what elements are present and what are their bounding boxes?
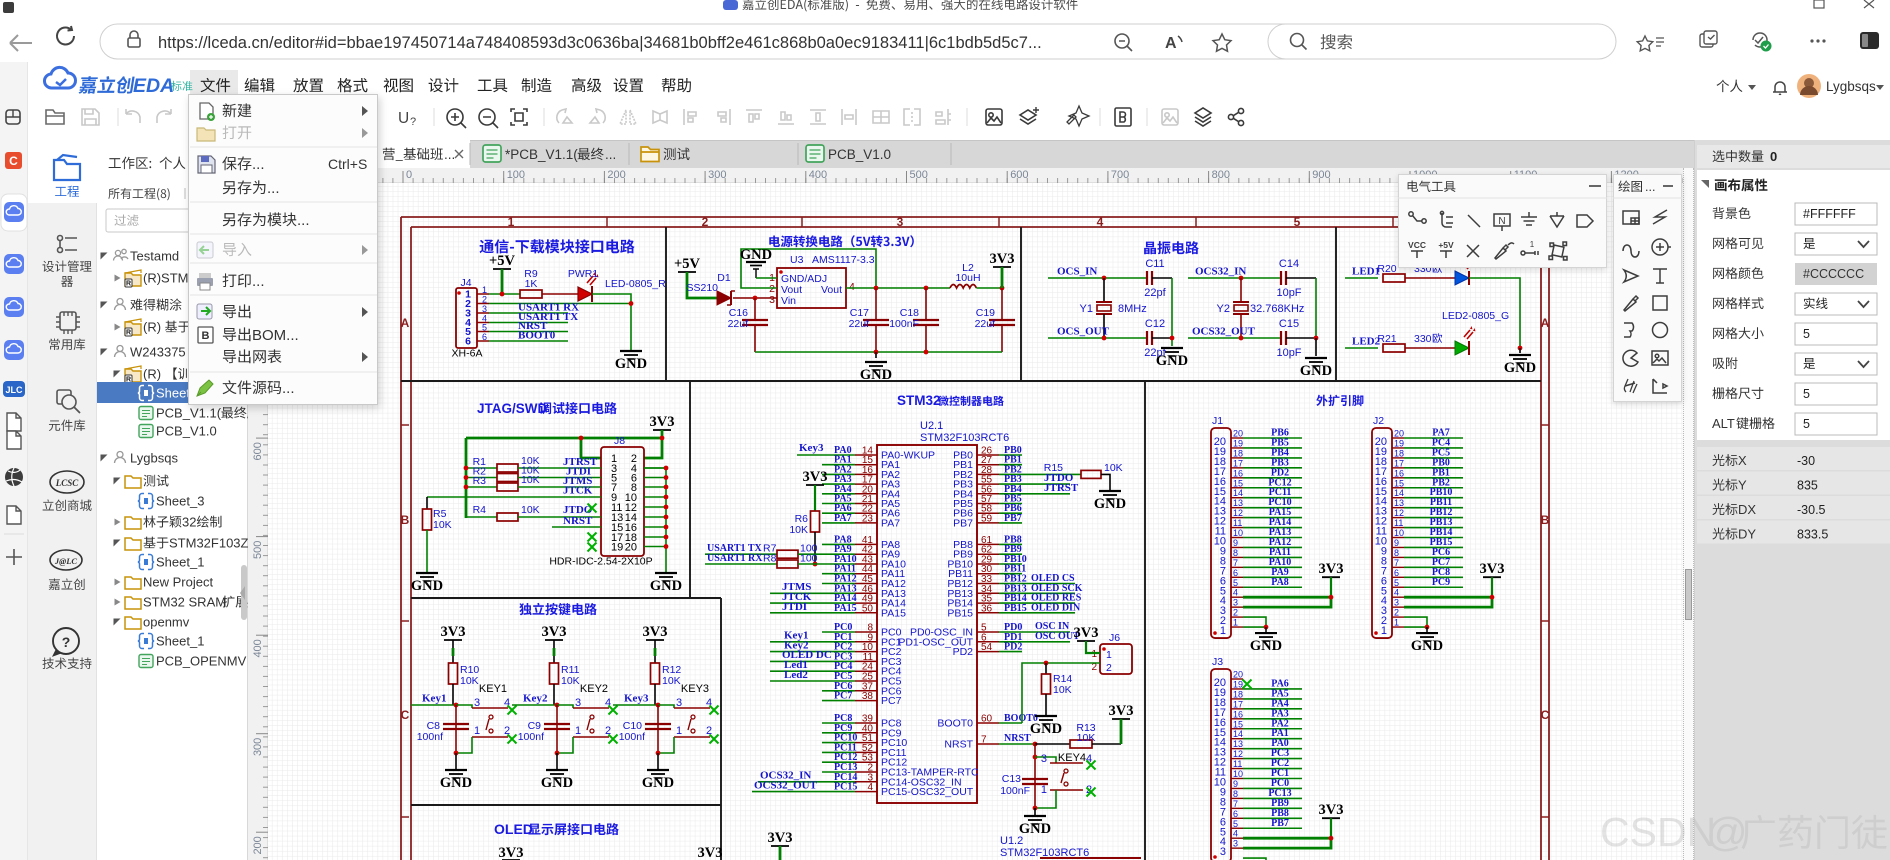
net label PA14 (J1 pin11)	[1243, 527, 1302, 529]
U2 pin 57 PB5	[977, 503, 999, 505]
svg-text:10K: 10K	[1053, 684, 1072, 696]
svg-text:R20: R20	[1377, 263, 1396, 275]
svg-text:7: 7	[1394, 558, 1399, 568]
svg-text:PD2: PD2	[953, 646, 974, 658]
svg-text:12: 12	[1233, 749, 1243, 759]
svg-text:GND: GND	[740, 247, 772, 263]
svg-text:PC9: PC9	[1432, 577, 1450, 588]
svg-text:900: 900	[1312, 169, 1330, 181]
wire NRST to KEY4/C13	[1034, 744, 1036, 808]
svg-text:Vout: Vout	[821, 284, 842, 296]
svg-text:1: 1	[1381, 625, 1387, 637]
resistor R3 10K	[466, 486, 497, 488]
U2 pin 21 PA5	[855, 503, 877, 505]
svg-text:6: 6	[1394, 568, 1399, 578]
svg-text:7: 7	[981, 735, 987, 746]
svg-text:GND: GND	[1250, 638, 1282, 654]
junction 3V3 out	[1000, 286, 1005, 291]
junction jtag 2	[660, 436, 665, 441]
net label PC3 (J3 pin12)	[1243, 758, 1302, 760]
U2 pin 45 PA12	[855, 583, 877, 585]
U2 pin 29 PB10	[977, 563, 999, 565]
svg-text:19: 19	[1233, 438, 1243, 448]
net label OSC OUT	[1022, 641, 1070, 643]
net label Key2 (PC2)	[770, 651, 822, 653]
resistor R5 10K	[426, 497, 428, 509]
svg-text:22pf: 22pf	[1144, 287, 1166, 299]
svg-text:JTCK: JTCK	[563, 485, 593, 497]
net label JTRST (PB4)	[1022, 493, 1070, 495]
title crystal oscillator circuit	[1144, 241, 1199, 254]
resistor R1 10K	[466, 467, 497, 469]
svg-text:8MHz: 8MHz	[1118, 303, 1147, 315]
net label PD2 (J1 pin16)	[1243, 477, 1302, 479]
net label PB1 (J2 pin16)	[1404, 477, 1463, 479]
svg-text:AMS1117-3.3: AMS1117-3.3	[812, 254, 875, 266]
title independent key circuit	[519, 603, 597, 615]
U2 pin 42 PA9	[855, 553, 877, 555]
svg-text:J1: J1	[1212, 415, 1223, 427]
svg-text:LED2-0805_G: LED2-0805_G	[1442, 310, 1509, 322]
svg-text:1: 1	[575, 725, 581, 737]
junction R2	[464, 475, 469, 480]
net label PB8 (J3 pin6)	[1243, 817, 1302, 819]
svg-text:NRST: NRST	[944, 739, 973, 751]
svg-text:400: 400	[809, 169, 827, 181]
svg-text:6: 6	[465, 336, 471, 348]
net label Key1	[411, 704, 456, 706]
svg-text:OCS32_IN: OCS32_IN	[1195, 266, 1246, 278]
junction C9 bottom	[555, 751, 560, 756]
svg-text:600: 600	[1010, 169, 1028, 181]
U2 pin 6 PD1-OSC_OUT	[977, 641, 999, 643]
junction 3V3 (J2)	[1490, 595, 1495, 600]
svg-text:18: 18	[1233, 448, 1243, 458]
capacitor C12 22pf	[1146, 331, 1148, 345]
svg-text:100nf: 100nf	[417, 731, 443, 743]
junction LED2 rail	[1518, 346, 1523, 351]
svg-text:400: 400	[252, 639, 264, 657]
ground GND (J1)	[1265, 627, 1267, 632]
net label PA0 (J3 pin13)	[1243, 748, 1302, 750]
svg-text:100: 100	[507, 169, 525, 181]
svg-text:3V3: 3V3	[768, 830, 793, 846]
wire +5V to diode D1	[687, 272, 717, 298]
wire D1 to U3 Vin	[733, 297, 777, 299]
net label PC8 (J2 pin6)	[1404, 576, 1463, 578]
svg-text:10K: 10K	[789, 524, 808, 536]
ground GND (32k)	[1315, 338, 1317, 356]
ground GND (J2)	[1426, 627, 1428, 632]
net label NRST (J8)	[552, 526, 601, 528]
svg-text:NRST: NRST	[563, 515, 593, 527]
net label JTDO (PB3)	[1022, 483, 1070, 485]
svg-text:4: 4	[1394, 588, 1399, 598]
wire J8 right rail	[644, 468, 666, 572]
svg-text:500: 500	[910, 169, 928, 181]
svg-text:J3: J3	[1212, 656, 1223, 668]
svg-text:GND: GND	[541, 775, 573, 791]
svg-text:J8: J8	[614, 435, 625, 447]
net label PC2 (J3 pin11)	[1243, 768, 1302, 770]
capacitor C13 100nF	[1022, 778, 1048, 780]
svg-text:C12: C12	[1145, 318, 1165, 330]
svg-text:330: 330	[1414, 333, 1432, 345]
svg-text:R8: R8	[763, 553, 777, 565]
svg-text:PWR1: PWR1	[568, 268, 598, 280]
net label PB10 (J2 pin14)	[1404, 497, 1463, 499]
wire 3V3 to R12	[654, 640, 656, 648]
svg-text:12: 12	[1233, 508, 1243, 518]
svg-text:22uf: 22uf	[849, 318, 870, 330]
svg-text:3V3: 3V3	[990, 251, 1015, 267]
resistor R14 10K	[1045, 663, 1047, 674]
title communication-download module interface circuit	[480, 239, 635, 253]
wire KEY4 to rail	[1035, 790, 1056, 808]
svg-text:PC7: PC7	[834, 691, 852, 702]
wire R20 to LED1	[1405, 277, 1455, 279]
svg-text:GND: GND	[1156, 353, 1188, 369]
svg-text:17: 17	[1394, 458, 1404, 468]
junction C17	[874, 286, 879, 291]
svg-text:4: 4	[1233, 829, 1238, 839]
svg-text:54: 54	[981, 642, 993, 653]
net label PC4 (J2 pin19)	[1404, 447, 1463, 449]
crystal Y2 32.768KHz	[1240, 278, 1242, 302]
svg-text:1: 1	[1041, 784, 1047, 796]
svg-text:9: 9	[1233, 538, 1238, 548]
wire J2 pin4 3V3	[1404, 596, 1492, 599]
resistor R15 10K (PB2)	[1022, 473, 1081, 475]
svg-text:1: 1	[508, 215, 515, 229]
resistor R12 10K	[651, 663, 660, 684]
svg-text:4: 4	[1233, 588, 1238, 598]
ground GND (8MHz)	[1161, 347, 1183, 349]
U2 pin 49 PA14	[855, 602, 877, 604]
U2 pin 24 PC4	[855, 670, 877, 672]
net label PC13 (J3 pin8)	[1243, 797, 1302, 799]
svg-text:5: 5	[1294, 215, 1301, 229]
svg-text:GND: GND	[1300, 363, 1332, 379]
svg-text:OCS32_OUT: OCS32_OUT	[754, 780, 818, 792]
U2 pin 7 NRST	[977, 743, 999, 745]
net label PB12 (J2 pin12)	[1404, 517, 1463, 519]
svg-text:3V3: 3V3	[698, 845, 723, 860]
svg-text:100nF: 100nF	[1000, 785, 1030, 797]
wire ground rail (power block)	[755, 351, 1002, 353]
svg-text:+5V: +5V	[674, 256, 701, 272]
svg-text:GND: GND	[860, 367, 892, 383]
svg-text:C13: C13	[1002, 773, 1021, 785]
net label PC6 (J2 pin8)	[1404, 556, 1463, 558]
net label LED1	[1345, 277, 1378, 279]
svg-text:15: 15	[1233, 478, 1243, 488]
net label JTCK (PA14)	[770, 602, 822, 604]
wire J2 pin3 3V3	[1404, 597, 1492, 607]
svg-text:20: 20	[1394, 429, 1404, 439]
U2 pin 35 PB14	[977, 602, 999, 604]
svg-text:8: 8	[1233, 789, 1238, 799]
svg-text:17: 17	[1233, 458, 1243, 468]
wire crystal2 right rail	[1315, 278, 1317, 338]
U2 pin 41 PA8	[855, 543, 877, 545]
svg-text:10uH: 10uH	[955, 272, 980, 284]
svg-text:U3: U3	[790, 254, 804, 266]
net label PB9 (J3 pin7)	[1243, 807, 1302, 809]
voltage regulator U3 AMS1117-3.3	[777, 268, 846, 308]
svg-text:50: 50	[862, 603, 874, 614]
svg-text:3V3: 3V3	[643, 624, 668, 640]
svg-text:19: 19	[611, 542, 623, 554]
wire J3 pin4 3V3	[1243, 837, 1331, 840]
net label Key3 (PA0)	[797, 454, 822, 456]
wire J1 pin1 GND	[1243, 626, 1266, 628]
U2 pin 40 PC9	[855, 732, 877, 734]
ground GND (KEY3)	[647, 769, 669, 771]
svg-text:J2: J2	[1373, 415, 1384, 427]
U2 pin 30 PB11	[977, 573, 999, 575]
svg-text:10K: 10K	[460, 675, 479, 687]
wire LED1 to rail	[1469, 278, 1520, 348]
junction Key2	[555, 703, 560, 708]
net label JTMS (PA13)	[770, 592, 822, 594]
junction C16	[753, 296, 758, 301]
svg-text:C14: C14	[1279, 258, 1299, 270]
wire +5V to J4 pin1	[501, 269, 504, 294]
svg-text:GND: GND	[1019, 821, 1051, 837]
net label PB2 (J2 pin15)	[1404, 487, 1463, 489]
junction R6 PA10	[813, 562, 818, 567]
U2 pin 22 PA6	[855, 512, 877, 514]
svg-text:3: 3	[1220, 846, 1226, 858]
svg-text:2: 2	[702, 215, 709, 229]
junction C8 bottom	[454, 751, 459, 756]
net label PB14 (J2 pin10)	[1404, 537, 1463, 539]
svg-text:3V3: 3V3	[542, 624, 567, 640]
crystal Y1 8MHz	[1103, 278, 1105, 302]
junction R3	[464, 485, 469, 490]
svg-text:60: 60	[981, 714, 993, 725]
svg-text:6: 6	[1233, 809, 1238, 819]
U2 pin 2 PC13-TAMPER-RTC	[855, 771, 877, 773]
resistor R11 10K	[550, 663, 559, 684]
junction 3V3 (J1)	[1329, 595, 1334, 600]
svg-text:1: 1	[1106, 649, 1112, 661]
svg-text:A: A	[1541, 316, 1550, 330]
U2 pin 33 PB12	[977, 583, 999, 585]
net label PA10 (J1 pin7)	[1243, 566, 1302, 568]
svg-text:Key3: Key3	[799, 442, 824, 454]
wire crystal1 right rail	[1171, 278, 1173, 346]
wire 3V3 bus (JTAG)	[466, 437, 662, 440]
net label PB6 (J1 pin20)	[1243, 437, 1302, 439]
junction Y2 bottom	[1239, 336, 1244, 341]
net label PC5 (J2 pin18)	[1404, 457, 1463, 459]
svg-text:3V3: 3V3	[1480, 561, 1505, 577]
svg-text:R21: R21	[1377, 333, 1396, 345]
svg-text:1: 1	[1394, 618, 1399, 628]
junction gnd rail 1	[874, 350, 879, 355]
svg-text:GND: GND	[1030, 721, 1062, 737]
svg-text:GND: GND	[642, 775, 674, 791]
svg-text:1: 1	[474, 725, 480, 737]
U2 pin 50 PA15	[855, 612, 877, 614]
net label PC9 (J2 pin5)	[1404, 586, 1463, 588]
U2 pin 17 PA3	[855, 483, 877, 485]
svg-text:JTDI: JTDI	[782, 601, 807, 613]
U2 pin 26 PB0	[977, 454, 999, 456]
svg-text:11: 11	[1233, 759, 1242, 769]
svg-text:100nf: 100nf	[518, 731, 544, 743]
svg-text:22uf: 22uf	[975, 318, 996, 330]
U2 pin 36 PB15	[977, 612, 999, 614]
LED PWR1 LED-0805_R	[578, 287, 592, 301]
svg-text:5: 5	[1233, 578, 1238, 588]
wire to GND (KEY2)	[556, 753, 558, 770]
svg-text:200: 200	[252, 836, 264, 854]
junction KEY4	[1033, 755, 1038, 760]
svg-text:9: 9	[1394, 538, 1399, 548]
svg-text:8: 8	[1233, 548, 1238, 558]
block outline communication module	[401, 380, 1541, 382]
svg-text:200: 200	[607, 169, 625, 181]
svg-text:NRST: NRST	[1004, 733, 1031, 744]
svg-text:BOOT0: BOOT0	[518, 330, 556, 342]
svg-text:GND: GND	[440, 775, 472, 791]
svg-text:32.768KHz: 32.768KHz	[1250, 303, 1304, 315]
svg-text:C: C	[1541, 708, 1550, 722]
net label PB7 (J3 pin5)	[1243, 827, 1302, 829]
svg-text:SS210: SS210	[686, 282, 718, 294]
svg-text:HDR-IDC-2.54-2X10P: HDR-IDC-2.54-2X10P	[549, 556, 652, 568]
svg-text:10K: 10K	[1077, 732, 1096, 744]
svg-text:Key3: Key3	[624, 693, 649, 705]
ground GND (C13)	[1024, 815, 1046, 817]
net label BOOT0 (J4)	[489, 340, 568, 342]
svg-text:1K: 1K	[525, 278, 538, 290]
svg-text:PB7: PB7	[953, 517, 973, 529]
net label OCS32_IN	[1188, 277, 1281, 279]
wire KEY1 to rail	[456, 737, 472, 753]
svg-text:KEY2: KEY2	[580, 683, 608, 695]
svg-text:PB7: PB7	[1271, 818, 1289, 829]
wire to GND (C13)	[1034, 808, 1036, 815]
ground GND (J8)	[655, 572, 677, 574]
capacitor C10 100nf	[657, 705, 659, 753]
net label PC11 (J1 pin14)	[1243, 497, 1302, 499]
wire R5 to GND	[426, 530, 428, 572]
svg-text:B: B	[1541, 513, 1550, 527]
resistor R8 100 (USART1 RX)	[705, 563, 777, 565]
connector J3	[1211, 669, 1231, 860]
net label USART1 TX (J4)	[489, 322, 568, 324]
ground GND (R15)	[1099, 490, 1121, 492]
net labels OLED (PB12-PB15)	[1022, 583, 1075, 585]
svg-text:3: 3	[474, 697, 480, 709]
net label OSC IN	[1022, 631, 1070, 633]
junction NRST	[1033, 742, 1038, 747]
svg-text:U2.1: U2.1	[920, 420, 943, 432]
net label OCS_OUT	[1048, 337, 1147, 339]
capacitor C9 100nf	[556, 705, 558, 753]
svg-text:3: 3	[1233, 598, 1238, 608]
capacitor C19 22uf	[1001, 288, 1003, 320]
svg-text:12: 12	[1394, 508, 1404, 518]
junction C18	[924, 286, 929, 291]
svg-text:18: 18	[1233, 689, 1243, 699]
U2 pin 53 PC12	[855, 761, 877, 763]
svg-text:KEY3: KEY3	[681, 683, 709, 695]
U2 pin 27 PB1	[977, 464, 999, 466]
svg-text:3: 3	[676, 697, 682, 709]
svg-text:9: 9	[1233, 779, 1238, 789]
svg-text:19: 19	[1394, 438, 1404, 448]
svg-text:1: 1	[1091, 649, 1097, 660]
wire L2 to 3V3	[976, 287, 1002, 289]
svg-text:20: 20	[625, 542, 637, 554]
svg-text:16: 16	[1233, 709, 1243, 719]
net label PA15 (J1 pin12)	[1243, 517, 1302, 519]
svg-text:PA7: PA7	[881, 517, 900, 529]
wire LED to GND rail	[592, 294, 631, 351]
wire J2 pin1 GND	[1404, 626, 1427, 628]
svg-text:LED-0805_R: LED-0805_R	[605, 278, 666, 290]
svg-text:2: 2	[1394, 608, 1399, 618]
svg-text:13: 13	[1233, 739, 1243, 749]
svg-text:GND: GND	[650, 578, 682, 594]
U2 pin 37 PC6	[855, 690, 877, 692]
svg-text:300: 300	[252, 738, 264, 756]
svg-text:Key1: Key1	[422, 693, 446, 705]
resistor R20 330ohm	[1383, 274, 1405, 282]
junction GND (J1)	[1264, 625, 1269, 630]
U2 pin 43 PA10	[855, 563, 877, 565]
U2 pin 20 PA4	[855, 493, 877, 495]
wire 3V3 to R10	[452, 640, 454, 648]
inductor L2 10uH	[950, 285, 976, 289]
U2 pin 62 PB9	[977, 553, 999, 555]
svg-text:14: 14	[1233, 488, 1243, 498]
junction Y1 top	[1102, 276, 1107, 281]
svg-text:GND: GND	[1411, 638, 1443, 654]
net label PA11 (J1 pin8)	[1243, 556, 1302, 558]
U2 pin 15 PA1	[855, 464, 877, 466]
svg-text:OCS32_OUT: OCS32_OUT	[1192, 326, 1256, 338]
svg-text:0: 0	[406, 169, 412, 181]
net label PC12 (J1 pin15)	[1243, 487, 1302, 489]
svg-text:22uf: 22uf	[728, 318, 749, 330]
svg-text:STM32F103RCT6: STM32F103RCT6	[920, 432, 1009, 444]
wire J1 pin2 GND	[1243, 617, 1266, 627]
resistor R10 10K	[449, 663, 458, 684]
connector J4	[456, 288, 477, 348]
svg-text:10K: 10K	[521, 504, 540, 516]
capacitor C14 10pF	[1280, 271, 1282, 285]
U2 pin 10 PC2	[855, 651, 877, 653]
junction crystal2 rail	[1314, 336, 1319, 341]
ground GND (power block)	[875, 352, 877, 358]
svg-text:1: 1	[676, 725, 682, 737]
svg-text:JTRST: JTRST	[1044, 482, 1079, 494]
svg-text:10: 10	[1233, 528, 1243, 538]
capacitor C18 100nF	[925, 288, 927, 320]
U2 pin 52 PC11	[855, 751, 877, 753]
net label Led2 (PC5)	[770, 680, 822, 682]
svg-text:20: 20	[1233, 429, 1243, 439]
diode D1 SS210	[717, 291, 731, 305]
svg-text:C11: C11	[1145, 258, 1164, 270]
net label PA7 (J2 pin20)	[1404, 437, 1463, 439]
